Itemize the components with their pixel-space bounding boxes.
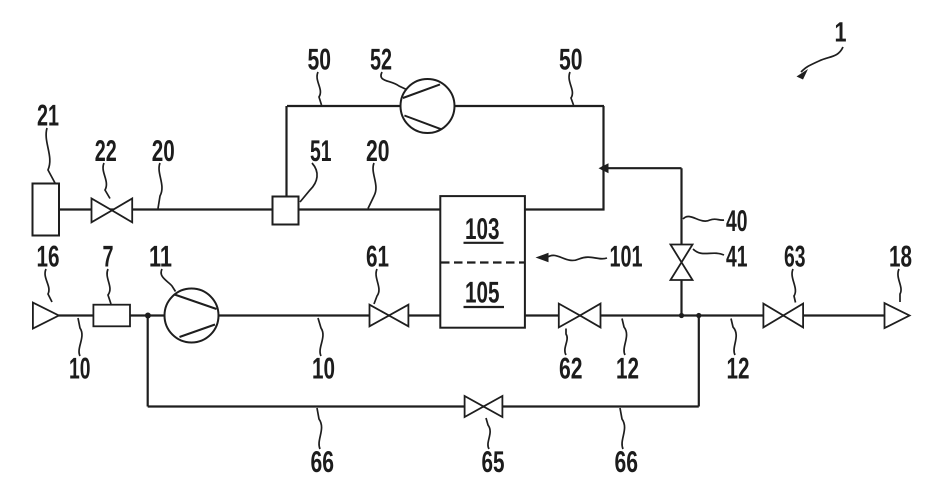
leader 61 [374,269,379,304]
junction node [145,313,151,319]
leader 22 [103,163,110,199]
leader 50 right [569,72,573,105]
leader 21 [46,128,55,183]
valve 63 [763,304,803,328]
outlet triangle 18 [885,303,910,328]
leader 66 left [317,408,322,449]
wire line 20 mid segment [299,208,441,210]
heat exchanger 101 box [440,196,525,328]
pump 11 [165,289,219,343]
inlet triangle 16 [33,303,59,329]
wire branch 40 horizontal [604,167,682,169]
wire bottom main line 10/12 [59,314,885,316]
svg-text:52: 52 [370,44,392,77]
leader 52 [381,72,407,90]
wire bypass left vertical 66 [147,316,149,407]
wire line 20 right segment [525,208,605,210]
leader 1 arrow [801,47,843,72]
leader 12 left [622,319,627,356]
leader 10 left [78,318,82,356]
leader 50 left [317,72,321,105]
valve 41 vertical [671,245,693,281]
wire 40 vertical lower [680,280,682,316]
svg-text:18: 18 [889,241,912,274]
leader 20 right [368,163,376,209]
svg-text:10: 10 [69,353,91,386]
svg-text:40: 40 [726,205,748,238]
svg-text:61: 61 [366,241,389,274]
leader 62 [565,329,567,356]
leader 7 [107,269,111,304]
svg-text:62: 62 [559,353,583,386]
valve 62 [559,304,601,328]
svg-text:103: 103 [465,213,500,246]
leader 11 [161,269,175,292]
leader 10 right [318,318,323,356]
leader 40 [683,216,724,221]
svg-text:12: 12 [727,353,750,386]
flow arrow at node [599,163,609,173]
valve 61 [370,305,409,327]
svg-text:12: 12 [616,353,639,386]
wire bypass right vertical 66 [698,316,700,407]
wire top loop left vertical [285,106,287,197]
svg-text:101: 101 [610,241,643,274]
svg-text:50: 50 [559,44,583,77]
wire bypass horizontal 66 [148,405,699,407]
leader 12 right [731,319,736,356]
svg-text:16: 16 [37,241,60,274]
junction dot 41 line [679,313,684,318]
junction dot bypass [696,313,701,318]
svg-text:20: 20 [366,135,390,168]
svg-text:11: 11 [149,241,172,274]
wire top loop right vertical [602,106,604,211]
svg-text:105: 105 [465,277,500,310]
svg-text:22: 22 [95,135,117,168]
wire top loop horizontal 50 [287,105,604,107]
leader 20 left [158,163,162,209]
leader 41 [693,249,724,255]
arrowhead 101 [536,253,549,262]
leader 18 [898,269,901,302]
wire 40 vertical upper [680,168,682,245]
leader 65 [486,418,490,449]
svg-text:1: 1 [835,17,847,48]
arrowhead 1 [797,69,809,80]
valve 22 [92,199,133,223]
svg-text:65: 65 [482,446,505,479]
reservoir 21 [33,184,60,236]
valve 65 [465,396,503,417]
svg-text:7: 7 [103,241,114,274]
svg-text:10: 10 [312,353,335,386]
svg-text:20: 20 [152,135,175,168]
svg-text:41: 41 [726,241,748,274]
sensor 51 [273,197,299,225]
leader 66 right [620,408,625,449]
leader 101 [547,255,607,260]
leader 51 [300,163,317,202]
svg-text:50: 50 [308,44,332,77]
pump 52 [401,79,455,133]
divider dashed [441,261,524,263]
wire line 20 left segment [59,208,273,210]
svg-text:66: 66 [311,446,335,479]
leader 16 [45,269,52,302]
svg-text:51: 51 [310,135,332,168]
leader 63 [792,269,795,303]
svg-text:66: 66 [615,446,639,479]
svg-text:21: 21 [37,100,59,133]
svg-text:63: 63 [784,241,806,274]
filter 7 [93,305,130,327]
